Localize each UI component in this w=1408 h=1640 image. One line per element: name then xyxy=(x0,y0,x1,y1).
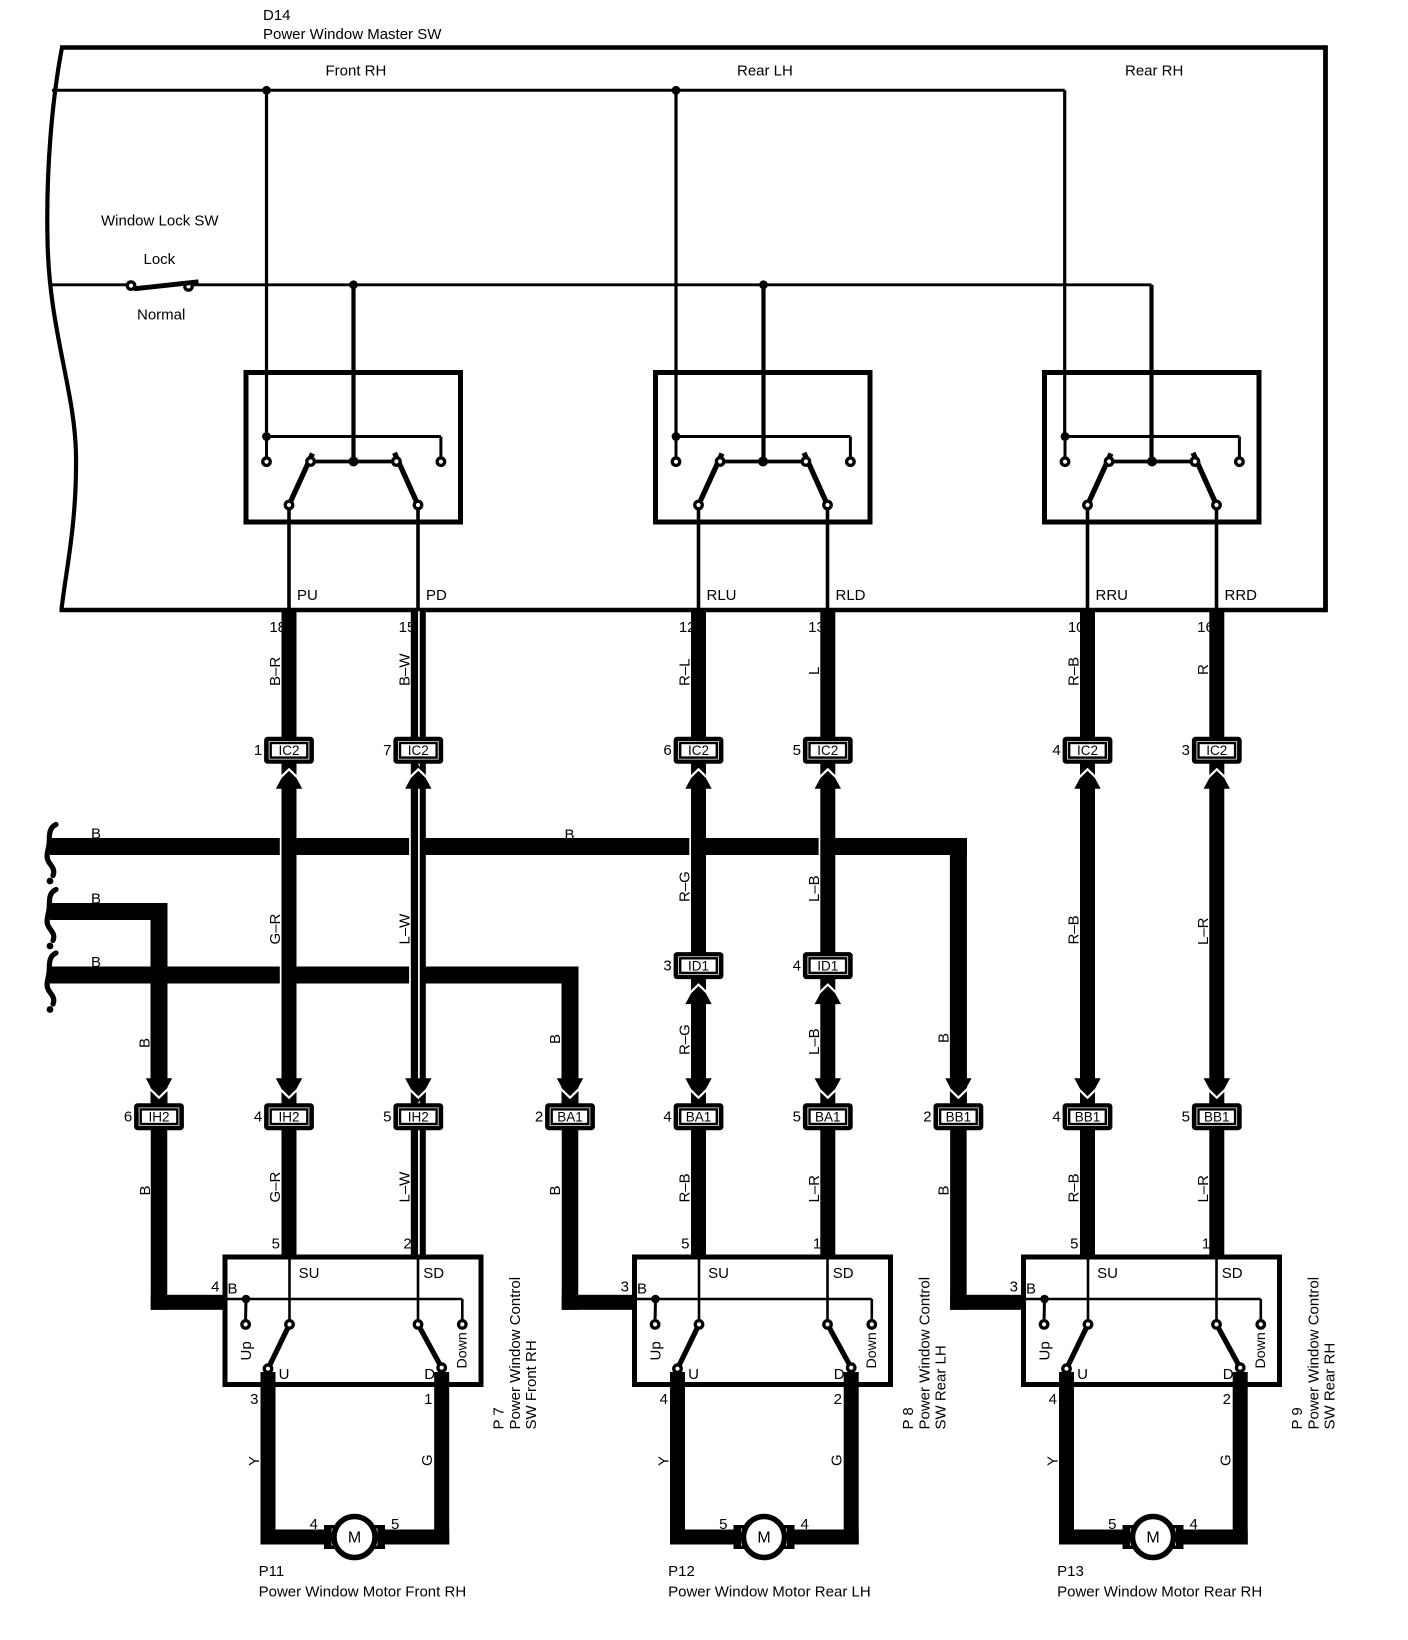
svg-text:P 7: P 7 xyxy=(490,1407,507,1429)
arrow into junction connector row xyxy=(144,1078,174,1103)
arrow into IC2 xyxy=(813,764,843,789)
svg-text:16: 16 xyxy=(1197,619,1214,636)
svg-text:5: 5 xyxy=(391,1516,399,1533)
wire L-W IH2 to control SW Front RH xyxy=(411,1128,426,1257)
svg-text:4: 4 xyxy=(211,1279,219,1296)
wire L-R IC2 to BB1 xyxy=(1209,762,1224,1105)
svg-text:BB1: BB1 xyxy=(1075,1110,1101,1125)
svg-text:3: 3 xyxy=(621,1279,629,1296)
connector IH2 pin 6 xyxy=(124,1103,184,1130)
svg-text:Lock: Lock xyxy=(144,251,176,268)
connector BA1 pin 2 xyxy=(535,1103,595,1130)
wire lock rail xyxy=(49,285,1152,462)
wire ground bus B lower xyxy=(50,967,579,1106)
svg-text:D: D xyxy=(1223,1366,1234,1383)
wire to Front RH switch common xyxy=(351,285,355,462)
wire L-W IC2 to IH2 xyxy=(411,762,426,1105)
svg-text:13: 13 xyxy=(808,619,825,636)
svg-text:Normal: Normal xyxy=(137,307,185,324)
motor P12 Power Window Motor Rear LH xyxy=(734,1517,795,1558)
svg-text:RLD: RLD xyxy=(836,587,866,604)
svg-text:4: 4 xyxy=(663,1109,671,1126)
svg-text:6: 6 xyxy=(663,742,671,759)
svg-text:M: M xyxy=(757,1530,770,1547)
arrow into ID1 xyxy=(684,980,714,1005)
break symbol bus B lower xyxy=(47,953,56,1004)
connector IC2 pin 1 xyxy=(254,737,314,764)
control SW Rear RH internals xyxy=(1024,1257,1270,1383)
svg-text:B: B xyxy=(935,1185,952,1195)
svg-text:B: B xyxy=(91,826,101,843)
svg-text:6: 6 xyxy=(124,1109,132,1126)
connector IC2 pin 6 xyxy=(663,737,723,764)
svg-text:IC2: IC2 xyxy=(408,743,429,758)
svg-text:SU: SU xyxy=(708,1265,729,1282)
svg-text:G: G xyxy=(419,1454,436,1466)
label P11 Power Window Motor Front RH xyxy=(259,1563,467,1601)
svg-text:2: 2 xyxy=(403,1236,411,1253)
svg-text:R–B: R–B xyxy=(1066,915,1083,944)
svg-text:P13: P13 xyxy=(1057,1563,1084,1580)
svg-text:SW Rear RH: SW Rear RH xyxy=(1321,1343,1338,1430)
svg-text:1: 1 xyxy=(1202,1236,1210,1253)
svg-text:U: U xyxy=(279,1366,290,1383)
connector ID1 pin 4 xyxy=(793,952,853,979)
svg-text:R–B: R–B xyxy=(677,1173,694,1202)
svg-text:R–B: R–B xyxy=(1066,657,1083,686)
svg-text:4: 4 xyxy=(793,958,801,975)
svg-text:D: D xyxy=(424,1366,435,1383)
svg-text:P11: P11 xyxy=(259,1563,285,1580)
connector IC2 pin 4 xyxy=(1052,737,1112,764)
svg-text:BB1: BB1 xyxy=(946,1110,972,1125)
wire R-B BB1 to control SW Rear RH xyxy=(1080,1128,1095,1257)
svg-text:4: 4 xyxy=(1049,1391,1057,1408)
svg-text:3: 3 xyxy=(663,958,671,975)
svg-text:IH2: IH2 xyxy=(148,1110,169,1125)
wire B BA1 to control SW Rear LH pin 3 xyxy=(562,1128,638,1310)
wire crossing seams xyxy=(280,838,821,985)
svg-text:Y: Y xyxy=(656,1456,673,1466)
wire to Rear LH switch left contact xyxy=(674,90,677,437)
connector IC2 pin 3 xyxy=(1182,737,1242,764)
connector BB1 pin 2 xyxy=(923,1103,983,1130)
svg-text:RLU: RLU xyxy=(707,587,737,604)
svg-text:15: 15 xyxy=(399,619,416,636)
switch Rear LH (master) box xyxy=(656,373,871,523)
svg-text:1: 1 xyxy=(813,1236,821,1253)
svg-text:Power Window Motor Rear RH: Power Window Motor Rear RH xyxy=(1057,1584,1262,1601)
wire R-B BA1 to control SW Rear LH xyxy=(691,1128,706,1257)
break symbol bus B middle xyxy=(47,890,56,941)
svg-text:4: 4 xyxy=(1052,742,1060,759)
svg-text:PD: PD xyxy=(426,587,447,604)
arrow into junction connector row xyxy=(403,1078,433,1103)
label P 9 SW Rear RH rotated xyxy=(1289,1277,1339,1430)
svg-text:Down: Down xyxy=(455,1332,471,1368)
wire G-R IH2 to control SW Front RH xyxy=(282,1128,297,1257)
svg-text:2: 2 xyxy=(1223,1391,1231,1408)
svg-text:B: B xyxy=(935,1033,952,1043)
svg-text:Power Window Control: Power Window Control xyxy=(916,1277,933,1430)
wire G control SW Rear RH to motor xyxy=(1183,1372,1248,1545)
wire L-R BB1 to control SW Rear RH xyxy=(1209,1128,1224,1257)
label P 8 SW Rear LH rotated xyxy=(900,1277,950,1430)
arrow into IC2 xyxy=(684,764,714,789)
svg-text:3: 3 xyxy=(1182,742,1190,759)
svg-text:BB1: BB1 xyxy=(1204,1110,1230,1125)
power window master switch D14 outline xyxy=(47,45,1325,612)
wire PU from Front RH switch xyxy=(287,510,291,611)
wire RLD from Rear LH switch xyxy=(826,510,830,611)
arrow into IC2 xyxy=(1073,764,1103,789)
wire ground bus B middle xyxy=(50,903,168,1105)
svg-text:Rear RH: Rear RH xyxy=(1125,63,1183,80)
svg-text:5: 5 xyxy=(719,1516,727,1533)
svg-text:SD: SD xyxy=(423,1265,444,1282)
svg-text:R–G: R–G xyxy=(677,1024,694,1055)
svg-text:Front RH: Front RH xyxy=(326,63,387,80)
svg-text:Power Window Control: Power Window Control xyxy=(1305,1277,1322,1430)
svg-text:IH2: IH2 xyxy=(278,1110,299,1125)
wire Y control SW Rear RH to motor xyxy=(1059,1372,1123,1545)
svg-text:Up: Up xyxy=(1037,1341,1054,1360)
svg-text:Power Window Master SW: Power Window Master SW xyxy=(263,26,442,43)
svg-text:M: M xyxy=(1146,1530,1159,1547)
wire R-G IC2 to ID1 xyxy=(691,762,706,954)
wire L-B IC2 to ID1 xyxy=(820,762,835,954)
power window control SW Rear RH box xyxy=(1024,1257,1280,1385)
label P13 Power Window Motor Rear RH xyxy=(1057,1563,1262,1601)
svg-text:Power Window Motor Front RH: Power Window Motor Front RH xyxy=(259,1584,467,1601)
motor P11 Power Window Motor Front RH xyxy=(324,1517,385,1558)
wire Y control SW Rear LH to motor xyxy=(670,1372,734,1545)
control SW Rear LH internals xyxy=(635,1257,881,1383)
svg-text:BA1: BA1 xyxy=(686,1110,712,1125)
connector BA1 pin 5 xyxy=(793,1103,853,1130)
svg-text:Window Lock SW: Window Lock SW xyxy=(101,213,219,230)
svg-text:L–B: L–B xyxy=(806,1028,823,1055)
wire G control SW Rear LH to motor xyxy=(794,1372,859,1545)
svg-text:D14: D14 xyxy=(263,7,291,24)
svg-text:BA1: BA1 xyxy=(815,1110,841,1125)
junction lock rail to Front RH switch common xyxy=(349,280,358,289)
wire R-L pin 12 master SW to IC2 xyxy=(691,611,706,739)
control SW Front RH internals xyxy=(225,1257,471,1383)
svg-text:ID1: ID1 xyxy=(817,959,838,974)
junction top rail to Front RH switch xyxy=(262,86,271,95)
wire ground bus B upper xyxy=(50,838,967,1105)
switch Rear LH internal contacts xyxy=(672,432,855,509)
svg-text:IC2: IC2 xyxy=(278,743,299,758)
switch Front RH internal contacts xyxy=(262,432,445,509)
svg-text:Y: Y xyxy=(246,1456,263,1466)
svg-text:P 9: P 9 xyxy=(1289,1407,1306,1429)
svg-text:10: 10 xyxy=(1068,619,1085,636)
label D14 Power Window Master SW xyxy=(263,7,442,43)
svg-text:Power Window Control: Power Window Control xyxy=(507,1277,524,1430)
wire G control SW Front RH to motor xyxy=(385,1372,450,1545)
svg-text:L–R: L–R xyxy=(1195,1175,1212,1203)
arrow into IC2 xyxy=(274,764,304,789)
connector IH2 pin 5 xyxy=(383,1103,443,1130)
wire R-B IC2 to BB1 xyxy=(1080,762,1095,1105)
svg-text:4: 4 xyxy=(660,1391,668,1408)
svg-text:B: B xyxy=(547,1034,564,1044)
svg-text:Power Window Motor Rear LH: Power Window Motor Rear LH xyxy=(668,1584,871,1601)
connector BB1 pin 4 xyxy=(1052,1103,1112,1130)
svg-text:R–G: R–G xyxy=(677,871,694,902)
svg-text:G: G xyxy=(1218,1454,1235,1466)
power window control SW Front RH box xyxy=(225,1257,481,1385)
wire B-R pin 18 master SW to IC2 xyxy=(282,611,297,739)
wire B-W pin 15 master SW to IC2 xyxy=(411,611,426,739)
svg-text:R–L: R–L xyxy=(677,658,694,686)
svg-text:Up: Up xyxy=(648,1341,665,1360)
connector ID1 pin 3 xyxy=(663,952,723,979)
svg-text:G: G xyxy=(829,1454,846,1466)
svg-text:12: 12 xyxy=(679,619,696,636)
svg-text:1: 1 xyxy=(254,742,262,759)
wire L-R BA1 to control SW Rear LH xyxy=(820,1128,835,1257)
svg-text:G–R: G–R xyxy=(267,1171,284,1202)
arrow into junction connector row xyxy=(274,1078,304,1103)
arrow into junction connector row xyxy=(555,1078,585,1103)
wire top rail inside master switch xyxy=(52,90,1065,437)
svg-text:Rear LH: Rear LH xyxy=(737,63,793,80)
wire PD from Front RH switch xyxy=(416,510,420,611)
svg-text:3: 3 xyxy=(250,1391,258,1408)
junction lock rail to Rear LH switch common xyxy=(759,280,768,289)
label P 7 SW Front RH rotated xyxy=(490,1277,540,1430)
svg-text:7: 7 xyxy=(383,742,391,759)
svg-text:L–W: L–W xyxy=(396,913,413,945)
connector BA1 pin 4 xyxy=(663,1103,723,1130)
svg-text:B: B xyxy=(136,1038,153,1048)
wire RRD from Rear RH switch xyxy=(1215,510,1219,611)
svg-text:PU: PU xyxy=(297,587,318,604)
svg-text:RRD: RRD xyxy=(1225,587,1258,604)
svg-text:IC2: IC2 xyxy=(688,743,709,758)
svg-text:U: U xyxy=(1077,1366,1088,1383)
svg-text:B: B xyxy=(91,891,101,908)
wire G-R IC2 to IH2 xyxy=(282,762,297,1105)
svg-text:IC2: IC2 xyxy=(1077,743,1098,758)
svg-text:5: 5 xyxy=(793,1109,801,1126)
arrow into junction connector row xyxy=(1202,1078,1232,1103)
svg-text:U: U xyxy=(688,1366,699,1383)
arrow into junction connector row xyxy=(1073,1078,1103,1103)
svg-text:4: 4 xyxy=(310,1516,318,1533)
svg-text:3: 3 xyxy=(1010,1279,1018,1296)
svg-text:SU: SU xyxy=(1097,1265,1118,1282)
connector IC2 pin 7 xyxy=(383,737,443,764)
arrow into ID1 xyxy=(813,980,843,1005)
break symbol bus B upper xyxy=(47,825,56,876)
wire B BB1 to control SW Rear RH pin 3 xyxy=(950,1128,1026,1310)
svg-text:IC2: IC2 xyxy=(1206,743,1227,758)
svg-text:SW Front RH: SW Front RH xyxy=(523,1340,540,1429)
svg-text:SD: SD xyxy=(833,1265,854,1282)
arrow into IC2 xyxy=(403,764,433,789)
wire B IH2 to control SW Front RH pin 4 xyxy=(151,1128,228,1310)
svg-text:P 8: P 8 xyxy=(900,1407,917,1429)
svg-text:B: B xyxy=(637,1281,647,1298)
svg-text:RRU: RRU xyxy=(1096,587,1129,604)
svg-text:B: B xyxy=(565,827,575,844)
svg-text:L–W: L–W xyxy=(396,1171,413,1203)
svg-text:ID1: ID1 xyxy=(688,959,709,974)
svg-text:5: 5 xyxy=(383,1109,391,1126)
svg-text:G–R: G–R xyxy=(267,913,284,944)
svg-text:Down: Down xyxy=(1253,1332,1269,1368)
svg-text:2: 2 xyxy=(535,1109,543,1126)
svg-text:5: 5 xyxy=(1108,1516,1116,1533)
svg-text:5: 5 xyxy=(793,742,801,759)
wire Y control SW Front RH to motor xyxy=(261,1372,325,1545)
switch Rear RH internal contacts xyxy=(1061,432,1244,509)
connector BB1 pin 5 xyxy=(1182,1103,1242,1130)
wire R-G ID1 to BA1 xyxy=(691,977,706,1105)
wire R-B pin 10 master SW to IC2 xyxy=(1080,611,1095,739)
svg-text:L–R: L–R xyxy=(1195,917,1212,945)
svg-text:M: M xyxy=(348,1530,361,1547)
svg-text:2: 2 xyxy=(923,1109,931,1126)
svg-text:L–R: L–R xyxy=(806,1175,823,1203)
svg-text:R–B: R–B xyxy=(1066,1173,1083,1202)
svg-text:L–B: L–B xyxy=(806,875,823,902)
connector IC2 pin 5 xyxy=(793,737,853,764)
wire L-B ID1 to BA1 xyxy=(820,977,835,1105)
svg-text:IH2: IH2 xyxy=(408,1110,429,1125)
svg-text:1: 1 xyxy=(424,1391,432,1408)
svg-text:B–R: B–R xyxy=(267,657,284,686)
arrow into junction connector row xyxy=(813,1078,843,1103)
label P12 Power Window Motor Rear LH xyxy=(668,1563,871,1601)
svg-text:P12: P12 xyxy=(668,1563,695,1580)
wire RLU from Rear LH switch xyxy=(697,510,701,611)
svg-text:4: 4 xyxy=(1190,1516,1198,1533)
svg-text:2: 2 xyxy=(834,1391,842,1408)
svg-text:R: R xyxy=(1195,664,1212,675)
svg-text:5: 5 xyxy=(272,1236,280,1253)
svg-text:B–W: B–W xyxy=(396,653,413,686)
motor P13 Power Window Motor Rear RH xyxy=(1123,1517,1184,1558)
window lock switch contacts xyxy=(127,282,198,290)
svg-text:4: 4 xyxy=(254,1109,262,1126)
svg-text:4: 4 xyxy=(801,1516,809,1533)
svg-text:B: B xyxy=(137,1185,154,1195)
power window control SW Rear LH box xyxy=(635,1257,891,1385)
arrow into junction connector row xyxy=(943,1078,973,1103)
wire to Rear LH switch common xyxy=(761,285,765,462)
connector IH2 pin 4 xyxy=(254,1103,314,1130)
svg-text:B: B xyxy=(228,1281,238,1298)
arrow into IC2 xyxy=(1202,764,1232,789)
wire L pin 13 master SW to IC2 xyxy=(820,611,835,739)
svg-text:BA1: BA1 xyxy=(557,1110,583,1125)
svg-text:SD: SD xyxy=(1222,1265,1243,1282)
svg-text:18: 18 xyxy=(269,619,286,636)
svg-text:4: 4 xyxy=(1052,1109,1060,1126)
svg-text:B: B xyxy=(91,954,101,971)
junction top rail to Rear LH switch xyxy=(672,86,681,95)
white stripe of B-W and L-W wire xyxy=(418,611,420,1257)
wire RRU from Rear RH switch xyxy=(1086,510,1090,611)
arrow into junction connector row xyxy=(684,1078,714,1103)
svg-text:B: B xyxy=(547,1185,564,1195)
wire R pin 16 master SW to IC2 xyxy=(1209,611,1224,739)
wire to Front RH switch left contact xyxy=(265,90,268,437)
svg-text:D: D xyxy=(834,1366,845,1383)
svg-text:SW Rear LH: SW Rear LH xyxy=(932,1345,949,1429)
svg-text:Up: Up xyxy=(238,1341,255,1360)
svg-text:L: L xyxy=(806,667,823,675)
svg-text:Y: Y xyxy=(1045,1456,1062,1466)
svg-text:Down: Down xyxy=(864,1332,880,1368)
svg-text:IC2: IC2 xyxy=(817,743,838,758)
svg-text:B: B xyxy=(1026,1281,1036,1298)
svg-text:SU: SU xyxy=(299,1265,320,1282)
switch Front RH (master) box xyxy=(246,373,461,523)
svg-text:5: 5 xyxy=(1070,1236,1078,1253)
switch Rear RH (master) box xyxy=(1045,373,1260,523)
svg-text:5: 5 xyxy=(1182,1109,1190,1126)
svg-text:5: 5 xyxy=(681,1236,689,1253)
